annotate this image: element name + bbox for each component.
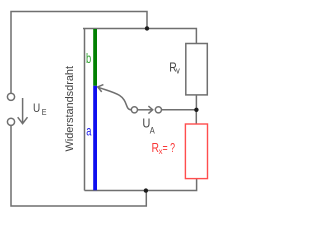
svg-text:v: v <box>176 66 180 76</box>
svg-text:= ?: = ? <box>163 141 176 155</box>
svg-text:U: U <box>33 101 40 115</box>
svg-text:Widerstandsdraht: Widerstandsdraht <box>64 66 76 152</box>
svg-text:A: A <box>150 126 155 136</box>
svg-text:a: a <box>86 123 92 138</box>
svg-text:b: b <box>86 51 91 66</box>
svg-text:E: E <box>42 107 47 117</box>
